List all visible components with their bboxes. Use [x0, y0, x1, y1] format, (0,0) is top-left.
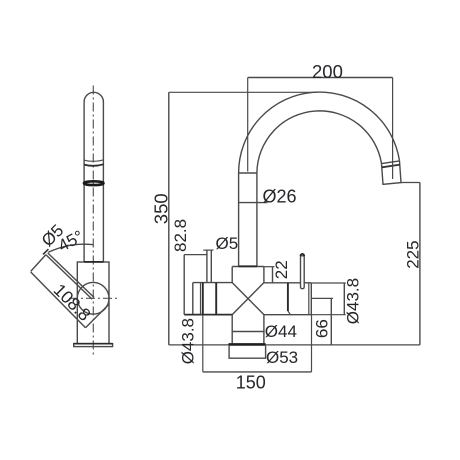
Ø5 leader tick at lever top [203, 249, 213, 251]
right handle seam light [308, 283, 310, 315]
left handle seam dark right [215, 283, 217, 315]
column/arc joint line [239, 172, 257, 174]
handle lever 45deg (double line) [46, 255, 92, 299]
spout tip joint line [382, 161, 400, 164]
spout tube side view [84, 92, 103, 262]
dim 200 right extension [392, 78, 394, 180]
dim 82.8 top extension [184, 254, 207, 256]
dim 350 top extension [169, 91, 317, 93]
svg-text:200: 200 [312, 61, 343, 82]
dim 150 left extension [202, 315, 204, 372]
handle cone stroke to body [86, 304, 110, 328]
right handle outline [264, 282, 311, 284]
lever tip tick [43, 249, 48, 254]
body side view [77, 262, 109, 344]
dim 200 line [248, 77, 393, 79]
tube/body junction dark segment [84, 261, 103, 263]
right lever ball top [301, 254, 305, 256]
left handle seam dark [202, 283, 204, 315]
leader Ø44 [232, 331, 264, 333]
dim right Ø43.8 line [343, 283, 345, 315]
svg-text:Ø5: Ø5 [216, 234, 239, 253]
dim 200 left extension [247, 78, 249, 172]
dim 66 line [330, 298, 332, 345]
dim 22 extension [264, 266, 275, 268]
svg-text:Ø43.8: Ø43.8 [179, 318, 198, 364]
base flange side view [74, 344, 113, 347]
dim right Ø43.8 ext bottom [311, 314, 346, 316]
lower column front [231, 315, 233, 344]
dim 150 right extension [311, 315, 313, 372]
base flange front body [229, 346, 266, 359]
cross block sides [231, 267, 233, 283]
svg-text:Ø43.8: Ø43.8 [344, 278, 363, 324]
X diagonals [232, 283, 264, 315]
spout tip band line [382, 165, 400, 168]
svg-text:Ø53: Ø53 [266, 348, 298, 367]
valve circle [77, 282, 109, 314]
svg-text:66: 66 [312, 319, 331, 338]
svg-text:82.8: 82.8 [171, 219, 190, 252]
dimension line 108.8 [31, 272, 86, 328]
dim right Ø43.8 ext top [311, 282, 346, 284]
counter extension line [169, 344, 420, 346]
svg-text:108.8: 108.8 [50, 280, 95, 325]
leader Ø26 [238, 202, 268, 204]
spout arc inner [257, 111, 382, 173]
right lever stick [301, 256, 305, 289]
svg-text:150: 150 [236, 372, 266, 392]
dim 350 line [168, 92, 170, 345]
dim 22 line [272, 267, 274, 283]
centerline horizontal through valve circle [69, 297, 118, 299]
left handle seam light [200, 283, 202, 315]
tube ring arcs [84, 160, 103, 161]
svg-text:225: 225 [403, 240, 422, 268]
base flange front: dark top bar [229, 343, 266, 346]
dim 225 extension [401, 182, 420, 184]
svg-text:350: 350 [150, 193, 171, 224]
cross block top [232, 266, 264, 268]
dim 225 line [419, 183, 421, 345]
45deg dimension arc [48, 244, 93, 252]
left lever stick [206, 250, 208, 282]
left handle outline [193, 282, 232, 284]
svg-text:Ø26: Ø26 [263, 186, 297, 206]
dim 150 line [203, 371, 312, 373]
svg-text:Ø44: Ø44 [265, 322, 297, 341]
extension line perp from lever tip [31, 255, 46, 272]
svg-text:22: 22 [272, 260, 291, 279]
spout tip outline [382, 161, 402, 184]
centerline vertical (side view) [92, 86, 94, 357]
dim 82.8 / left Ø43.8 shared line [183, 255, 185, 315]
spout arc outer [239, 92, 400, 173]
flange top dark line side view [74, 343, 113, 345]
dim 66 extension [311, 297, 333, 299]
spout column front [238, 173, 240, 267]
tube dark ellipse joint [84, 181, 104, 185]
right handle seam dark [287, 283, 289, 311]
